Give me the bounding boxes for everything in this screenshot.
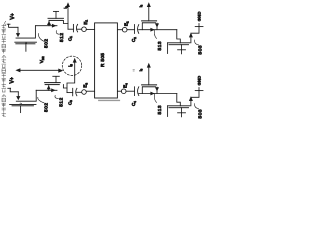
M2 gate bar: [143, 22, 156, 24]
wire source rail stage2: [36, 89, 57, 91]
wire C2 to M2 area: [139, 29, 177, 31]
V+ supply tick stage2: [8, 87, 11, 89]
svg-text:502: 502: [43, 38, 48, 48]
svg-text:R 505: R 505: [100, 53, 105, 67]
wire to M3: [177, 30, 181, 43]
smudge under box: [99, 99, 120, 101]
M1 source lead with arrow: [48, 21, 50, 25]
wire box to E2: [117, 29, 122, 31]
wire box to E4: [117, 90, 121, 92]
long double arrow VB2: [18, 69, 60, 71]
M1 gate top lead: [55, 11, 57, 18]
M5 source lead with down arrow: [156, 87, 158, 93]
M6 right lead with up arrow: [190, 100, 192, 106]
svg-text:512: 512: [59, 32, 64, 42]
stray mark: [133, 70, 135, 71]
leader 512 stage1: [56, 31, 59, 35]
svg-text:503: 503: [197, 45, 202, 55]
terminal E3 circle: [82, 90, 87, 95]
ground bar2 stage1: [16, 43, 35, 45]
node wire stage1: [16, 26, 35, 38]
svg-text:V+: V+: [10, 77, 16, 83]
GND tick stage2: [195, 90, 203, 92]
M3 gate ground stub: [181, 50, 183, 54]
wire E4 to C4: [126, 90, 135, 92]
svg-text:513: 513: [157, 41, 162, 51]
svg-text:GND: GND: [196, 75, 201, 85]
transistor M4 502' channel bar: [45, 82, 61, 84]
transistor M2 513 channel bar: [142, 20, 157, 22]
svg-text:512: 512: [58, 97, 63, 107]
ground bar2 stage2: [12, 105, 34, 107]
M4 gate bar: [45, 84, 59, 86]
leader 513 stage2: [154, 94, 156, 103]
M6 gate bar: [169, 107, 189, 109]
M4 drain step: [63, 85, 67, 88]
wire to M6: [177, 94, 181, 106]
wire to GND stage1: [191, 27, 199, 33]
M6 gate ground stem: [181, 108, 183, 113]
svg-text:i3: i3: [138, 4, 144, 7]
left vertical caption text (simulated kana/kanji column): [2, 21, 6, 117]
transistor M5 513' channel bar: [142, 84, 157, 86]
ground notch stage1: [25, 42, 27, 44]
M4 source lead with arrow: [48, 86, 50, 91]
wire V+ stem stage2: [10, 88, 18, 92]
wire C3 to terminal: [77, 91, 82, 93]
M5 drain lead with up arrow: [148, 67, 150, 85]
M1 gate tick: [53, 10, 58, 12]
ground notch stage2: [20, 103, 21, 104]
wire terminal to box bottom-left: [86, 90, 94, 92]
wire C1 to terminal: [77, 28, 81, 30]
svg-text:513: 513: [157, 105, 162, 115]
wire V+ stem stage1: [9, 24, 18, 27]
leader 512 stage2: [55, 95, 58, 98]
M6 gate ground stub: [181, 113, 183, 117]
ground stem stage1: [25, 44, 27, 52]
M2 gate lead down: [141, 23, 143, 30]
M4 gate tick: [53, 75, 60, 77]
leader 513 stage1: [154, 30, 156, 39]
ground bar1 stage1: [15, 41, 37, 43]
GND tick stage1: [195, 26, 203, 28]
capacitor C2 plates: [134, 25, 136, 34]
wire source rail stage1: [36, 25, 57, 27]
current arrowhead right on coupling wire stage1: [150, 28, 154, 32]
M2 source lead with down arrow: [156, 23, 158, 30]
current arrow i1 vertical: [67, 6, 69, 30]
M6 left stub: [167, 106, 169, 117]
dashed circle current source: [62, 56, 81, 75]
svg-text:V+: V+: [10, 13, 16, 19]
current arrow down stage2: [17, 92, 19, 97]
wire E2 to C2: [127, 29, 135, 31]
wire to GND stage2: [191, 91, 199, 98]
transistor M1 502 channel bar: [48, 17, 64, 19]
M6 gate ground bar: [178, 112, 186, 114]
transistor M3 503 channel bar: [168, 42, 190, 44]
transistor M6 503' channel bar: [168, 105, 190, 107]
M2 drain lead with up arrow: [148, 6, 150, 21]
terminal E4 circle: [121, 89, 126, 94]
terminal E1 circle: [82, 27, 87, 32]
transistor M1 gate bar: [49, 19, 63, 21]
resonator box R505: [95, 23, 118, 98]
capacitor C3 plates: [72, 88, 74, 96]
M3 left stub: [167, 43, 169, 54]
current arrow i3 dogleg through dashed circle: [67, 62, 75, 93]
current arrowhead right stage2: [51, 88, 55, 92]
capacitor C4 plates: [134, 87, 136, 96]
wire to C1: [68, 28, 73, 30]
capacitor C1 plates: [72, 24, 74, 32]
terminal E2 circle: [122, 27, 127, 32]
leader 502 stage2: [38, 97, 44, 103]
leader 503 stage1: [195, 40, 199, 45]
svg-text:GND: GND: [196, 11, 201, 21]
ground bar1 stage2: [10, 103, 36, 105]
V+ supply tick stage1: [7, 23, 10, 25]
leader 503 stage2: [195, 104, 199, 109]
leader 502 stage1: [39, 34, 45, 42]
M5 gate lead down: [141, 87, 143, 94]
M5 gate bar: [143, 86, 156, 88]
wire C4 to M5 area: [139, 93, 177, 95]
current arrow down stage1: [17, 27, 19, 33]
svg-text:i6: i6: [138, 68, 144, 71]
svg-text:503: 503: [197, 109, 202, 119]
current arrowhead right stage1: [52, 24, 56, 28]
current arrowhead right on coupling wire stage2: [150, 92, 154, 96]
svg-text:i2: i2: [63, 6, 69, 9]
M3 gate ground bar: [178, 49, 186, 51]
wire low rail stage2: [16, 90, 36, 101]
M4 gate top lead: [55, 76, 57, 82]
M3 gate bar: [169, 44, 189, 46]
GND stub stage1: [198, 24, 200, 27]
svg-text:i5: i5: [68, 64, 74, 67]
ground stem stage2: [20, 106, 22, 113]
wire terminal to box: [86, 28, 94, 30]
GND stub stage2: [198, 88, 200, 91]
svg-text:502: 502: [43, 102, 48, 112]
wire to C3: [67, 92, 73, 94]
M1 drain step: [63, 20, 68, 23]
M3 right lead with up arrow: [190, 36, 192, 43]
M3 gate ground stem: [181, 45, 183, 50]
